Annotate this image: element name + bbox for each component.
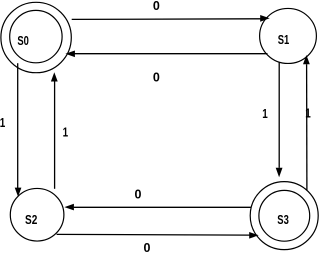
svg-text:0: 0 <box>135 187 142 201</box>
svg-text:S0: S0 <box>17 34 29 48</box>
wire S2 to S3 (bottom edge rightwards) <box>57 232 259 239</box>
svg-text:S2: S2 <box>25 213 37 227</box>
state S2 <box>10 188 64 241</box>
wire S1 to S3 (right edge down) <box>276 62 283 177</box>
wire S1 to S0 (second top edge) <box>65 51 267 58</box>
svg-text:1: 1 <box>262 107 268 121</box>
svg-text:S1: S1 <box>278 33 290 47</box>
wire S3 to S2 (lower edge leftwards) <box>64 204 251 211</box>
svg-text:0: 0 <box>153 0 160 13</box>
svg-text:1: 1 <box>0 116 5 130</box>
svg-text:S3: S3 <box>277 213 289 227</box>
state S0 (accepting, double circle) <box>1 2 71 72</box>
svg-text:1: 1 <box>305 107 311 121</box>
wire S2 to S0 (left edge up) <box>51 72 58 189</box>
svg-text:0: 0 <box>153 71 160 85</box>
wire S3 to S1 (right edge up) <box>303 55 310 190</box>
svg-text:0: 0 <box>144 241 151 255</box>
wire S0 to S2 (left edge down) <box>15 63 22 197</box>
wire S0 to S1 (top edge) <box>72 15 270 22</box>
state S3 (accepting, double circle) <box>250 182 318 250</box>
state S1 <box>260 8 317 63</box>
svg-text:1: 1 <box>63 125 69 139</box>
